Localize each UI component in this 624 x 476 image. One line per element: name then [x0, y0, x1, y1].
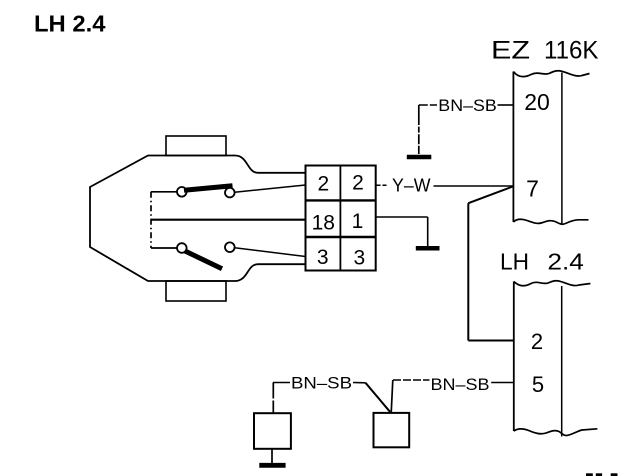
wire Y-W to EZ pin 7	[434, 185, 513, 187]
svg-text:18: 18	[312, 211, 335, 234]
svg-text:5: 5	[532, 372, 544, 397]
svg-text:BN–SB: BN–SB	[438, 96, 497, 115]
ECU EZ 116K inner edge	[561, 73, 563, 225]
lower switch fixed contact	[177, 243, 187, 253]
ECU EZ 116K torn bottom edge	[513, 219, 588, 224]
branch vertical wire	[467, 203, 469, 340]
ground stem (pin 1)	[427, 217, 429, 247]
svg-text:2: 2	[317, 172, 329, 195]
ECU EZ 116K torn top edge	[513, 71, 589, 77]
connector grid row divider 2	[306, 236, 376, 238]
wire into LH pin 2	[468, 340, 514, 342]
svg-text:BN–SB: BN–SB	[431, 375, 490, 394]
svg-text:BN–SB: BN–SB	[291, 374, 352, 393]
wire lower contact to pin 3	[235, 248, 306, 257]
throttle switch body outline	[90, 156, 306, 282]
splice connector box 2	[374, 413, 410, 447]
svg-text:116K: 116K	[544, 37, 599, 65]
ground (J1)	[259, 463, 285, 468]
wire left of left BN-SB	[273, 382, 290, 384]
page number fragment (clipped)	[586, 473, 593, 476]
ECU LH 2.4 inner edge	[561, 286, 563, 437]
common link (dash-dot)	[150, 192, 152, 248]
lower switch blade (open)	[185, 251, 222, 269]
wire pin 1 to ground	[377, 216, 428, 218]
wire to upper contact	[151, 191, 178, 193]
wire stub to BN-SB (top)	[419, 104, 437, 106]
wire stub pin2 to Y-W label	[377, 184, 387, 186]
svg-text:20: 20	[524, 89, 550, 115]
ground stem (J1)	[271, 449, 273, 463]
svg-text:2.4: 2.4	[547, 249, 584, 275]
ground (top BN-SB)	[407, 155, 432, 160]
svg-text:LH: LH	[500, 249, 529, 275]
ground stem (top BN-SB)	[418, 105, 420, 154]
top mounting tab	[166, 136, 226, 156]
diagonal wire from left BN-SB to splice J2	[366, 383, 391, 412]
wire to pin 18	[151, 219, 306, 221]
bottom mounting tab	[166, 281, 226, 301]
svg-text:2: 2	[531, 329, 543, 354]
lower switch contact 2	[225, 242, 235, 252]
wire to lower contact	[151, 247, 178, 249]
wire stub left of right BN-SB	[393, 379, 430, 381]
svg-text:1: 1	[352, 210, 364, 233]
wire BN-SB to EZ pin 20	[498, 104, 514, 106]
svg-text:LH 2.4: LH 2.4	[34, 11, 106, 37]
branch diagonal to LH pin 2	[468, 187, 512, 204]
ECU LH 2.4 left edge	[513, 282, 515, 432]
wire upper contact to pin 2	[235, 185, 306, 192]
connector grid center divider	[339, 166, 341, 271]
ECU EZ 116K left edge	[512, 72, 514, 223]
svg-text:7: 7	[526, 176, 539, 202]
upper switch blade (closed)	[184, 186, 233, 191]
wire down to splice J2	[391, 380, 393, 413]
svg-text:EZ: EZ	[491, 37, 530, 65]
upper switch fixed contact	[177, 187, 187, 197]
splice connector box 1	[254, 413, 291, 449]
svg-text:3: 3	[353, 247, 365, 270]
connector grid outline	[306, 166, 376, 271]
upper switch contact 2	[225, 188, 235, 198]
wire right of left BN-SB	[353, 382, 366, 384]
svg-text:Y–W: Y–W	[392, 176, 431, 196]
ECU LH 2.4 torn top edge	[514, 281, 591, 286]
svg-text:3: 3	[317, 246, 329, 269]
ECU LH 2.4 torn bottom edge	[514, 429, 598, 436]
wire BN-SB to LH pin 5	[491, 382, 514, 384]
ground (pin 1)	[416, 246, 440, 251]
connector grid row divider 1	[306, 199, 376, 201]
svg-text:2: 2	[352, 172, 364, 195]
wire down to splice J1	[272, 383, 274, 414]
